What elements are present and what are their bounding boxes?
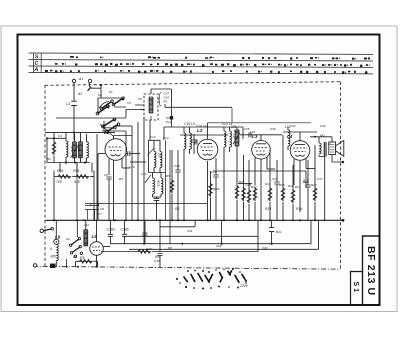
- svg-text:L9: L9: [203, 124, 207, 128]
- table frame: [28, 53, 373, 74]
- resistor R19: [291, 190, 295, 203]
- svg-text:3025: 3025: [157, 180, 161, 187]
- cap C40 to chassis: [159, 220, 161, 252]
- cap C9: [106, 177, 111, 179]
- svg-text:C13: C13: [150, 135, 156, 139]
- resistor R11: [235, 186, 239, 199]
- resistor R1: [52, 142, 56, 155]
- svg-text:C5: C5: [127, 101, 131, 105]
- cap C47: [303, 180, 308, 182]
- dropper coil 900: [56, 245, 58, 261]
- cap C33: [274, 182, 279, 184]
- capacitor C1: [71, 101, 77, 105]
- svg-text:L10: L10: [232, 134, 236, 139]
- grid cluster above L4: [288, 130, 290, 146]
- svg-text:K1: K1: [109, 90, 113, 94]
- coil third: [87, 142, 89, 158]
- svg-text:R5: R5: [166, 174, 170, 178]
- cap C36: [305, 185, 310, 187]
- svg-text:C22: C22: [211, 170, 217, 174]
- resistor R7 at L2: [209, 184, 213, 197]
- svg-text:R6M: R6M: [213, 187, 220, 191]
- output transformer: [319, 142, 326, 157]
- top right long wires: [208, 122, 312, 124]
- svg-text:A2: A2: [77, 92, 82, 96]
- bottom connect wire: [47, 162, 90, 164]
- svg-text:C: C: [35, 61, 39, 67]
- svg-text:L10: L10: [234, 129, 240, 133]
- svg-text:918: 918: [74, 180, 80, 184]
- osc coil pair left of L2: [184, 133, 186, 149]
- svg-text:C40: C40: [154, 259, 160, 263]
- svg-text:C1: C1: [66, 102, 70, 106]
- svg-text:C30: C30: [270, 127, 276, 131]
- svg-text:C14: C14: [163, 136, 169, 140]
- switch arrowheads: [106, 97, 124, 121]
- speaker return wires: [319, 155, 325, 220]
- wire screen L1: [122, 167, 130, 169]
- cap C11 right: [126, 151, 140, 156]
- svg-text:S: S: [35, 54, 39, 60]
- resistor R2: [58, 175, 71, 179]
- svg-text:R15: R15: [279, 183, 285, 187]
- svg-text:K2: K2: [98, 93, 102, 97]
- cap C21 at L2 grid: [195, 139, 197, 144]
- anode wire L5: [103, 246, 110, 248]
- svg-text:C34: C34: [320, 124, 326, 128]
- svg-text:C12: C12: [141, 172, 147, 176]
- cap C16: [175, 170, 180, 172]
- mid vertical wires L1 area: [149, 120, 151, 140]
- electrolytic C38b: [122, 234, 127, 236]
- chassis drop wires: [66, 259, 68, 267]
- svg-text:220V: 220V: [239, 284, 249, 288]
- chassis terminal: [34, 264, 37, 267]
- coil L-ant primary: [73, 142, 77, 158]
- IF coil pair 2: [145, 173, 163, 221]
- svg-text:C37: C37: [317, 177, 323, 181]
- wire L4 anode: [306, 168, 315, 170]
- switch arc marks: [99, 102, 116, 127]
- svg-text:C19 L9: C19 L9: [184, 122, 195, 126]
- vertical value labels on cans: [70, 99, 236, 187]
- heater cap rail: [85, 206, 99, 210]
- svg-text:R12: R12: [251, 185, 257, 189]
- svg-text:C23: C23: [222, 122, 228, 126]
- svg-text:C8: C8: [100, 207, 104, 211]
- svg-text:L8: L8: [229, 122, 233, 126]
- C2 lever: [88, 87, 92, 91]
- cap C20: [191, 140, 196, 142]
- AVC feedback wire: [213, 171, 306, 179]
- trimmer arrows on coils: [71, 133, 241, 158]
- wire antenna down: [73, 83, 75, 140]
- AVC line long: [165, 102, 232, 127]
- resistor R8: [138, 250, 151, 254]
- coil L-ant secondary: [79, 142, 83, 158]
- svg-text:R11: R11: [239, 180, 245, 184]
- wave switch assembly: [98, 99, 123, 132]
- cap C39: [144, 220, 146, 243]
- svg-text:BF 213 U: BF 213 U: [365, 246, 377, 296]
- svg-text:C33: C33: [272, 177, 278, 181]
- oscillator coil can (top): [144, 94, 158, 120]
- svg-text:C31: C31: [187, 229, 193, 233]
- svg-text:R9: R9: [80, 256, 84, 260]
- long vertical routing wires: [125, 131, 127, 220]
- svg-text:R6: R6: [175, 207, 179, 211]
- padder resistors row: [60, 163, 92, 173]
- svg-text:R14: R14: [265, 182, 271, 186]
- mains terminal: [40, 229, 43, 232]
- svg-text:L10: L10: [250, 130, 255, 134]
- return wire 2: [129, 220, 319, 249]
- main earth bus: [46, 219, 344, 221]
- long verticals mid: [166, 140, 171, 243]
- coupling caps above L3: [240, 134, 282, 136]
- svg-text:P11: P11: [166, 120, 171, 124]
- svg-text:C16: C16: [174, 164, 180, 168]
- svg-text:C42: C42: [216, 244, 222, 248]
- svg-text:R18: R18: [57, 169, 63, 173]
- svg-text:R19: R19: [73, 169, 79, 173]
- title block BF 213 U: [363, 236, 380, 305]
- return wire 3 with R8: [101, 220, 258, 251]
- svg-text:C26: C26: [244, 127, 250, 131]
- wire R21 drop: [271, 220, 273, 243]
- svg-text:R4: R4: [119, 177, 123, 181]
- wire drop 2: [221, 220, 223, 243]
- svg-text:C7: C7: [98, 212, 102, 216]
- title block S 1: [351, 272, 363, 306]
- svg-text:C10: C10: [129, 165, 135, 169]
- resistor R9: [80, 260, 93, 264]
- wire can top: [151, 89, 172, 102]
- speaker: [329, 141, 344, 157]
- rectifier tube L5: [90, 220, 104, 266]
- fuse block: [50, 264, 55, 268]
- svg-text:S3: S3: [73, 255, 77, 259]
- table speckle rows: [45, 56, 370, 74]
- svg-text:L12: L12: [84, 223, 89, 227]
- resistor R5: [170, 180, 174, 193]
- svg-text:C41: C41: [262, 246, 268, 250]
- inner drawing frame: [18, 35, 380, 306]
- svg-text:L4: L4: [287, 134, 293, 139]
- svg-text:3000: 3000: [70, 146, 74, 153]
- svg-text:R16: R16: [288, 184, 294, 188]
- dial lamp: [54, 239, 59, 244]
- short screen wire: [238, 183, 252, 185]
- top interconnect wires mid: [164, 127, 230, 140]
- svg-text:R21: R21: [276, 230, 282, 234]
- svg-text:R19: R19: [296, 207, 302, 211]
- wires switch routing: [98, 98, 144, 131]
- svg-text:6: 6: [50, 247, 52, 251]
- trimmer coil small: [66, 141, 68, 157]
- electrolytic C38a: [108, 234, 113, 236]
- cap+res cluster: [242, 188, 246, 201]
- svg-text:A1: A1: [78, 77, 83, 81]
- svg-text:010: 010: [158, 153, 162, 158]
- dropper chain wire: [55, 220, 57, 239]
- cap C22: [213, 175, 218, 177]
- svg-text:C4: C4: [58, 134, 62, 138]
- resistor R20: [313, 188, 317, 201]
- svg-text:L2: L2: [197, 128, 203, 133]
- svg-text:M1: M1: [320, 134, 325, 138]
- svg-text:L5: L5: [92, 234, 98, 239]
- text labels: [33, 54, 38, 73]
- svg-text:A: A: [33, 67, 38, 73]
- coil pair right of L2: [224, 131, 226, 147]
- mains switch lever: [43, 229, 51, 231]
- terminal A1: [72, 79, 75, 82]
- chassis dashed box: [45, 82, 341, 270]
- svg-text:C36: C36: [303, 180, 309, 184]
- switch contact circle: [113, 126, 116, 129]
- svg-text:C38a: C38a: [107, 228, 115, 232]
- svg-text:S2: S2: [66, 237, 70, 241]
- svg-text:C38b: C38b: [121, 228, 129, 232]
- svg-text:R20: R20: [311, 183, 317, 187]
- horizontal routing upper-left: [45, 131, 115, 133]
- voltage selector levers: [71, 239, 80, 253]
- resistor R14: [268, 188, 272, 201]
- cathode res L3: [253, 188, 257, 201]
- selector feed wire: [76, 220, 78, 237]
- svg-text:L6: L6: [55, 235, 61, 240]
- wire from C2 to switch: [89, 83, 91, 88]
- speaker wires top: [310, 137, 332, 143]
- svg-text:C19: C19: [196, 124, 202, 128]
- svg-text:R8: R8: [168, 246, 172, 250]
- stub line under C38: [160, 220, 195, 227]
- svg-text:C32: C32: [290, 124, 296, 128]
- svg-text:R14: R14: [265, 207, 271, 211]
- terminal A2: [88, 79, 91, 82]
- extra table marks: [70, 56, 342, 74]
- svg-text:R17: R17: [295, 185, 301, 189]
- svg-text:100: 100: [150, 99, 154, 104]
- IF coil pair 1: [148, 140, 166, 172]
- svg-text:900: 900: [51, 255, 57, 259]
- svg-text:L1: L1: [104, 130, 110, 135]
- svg-text:R1: R1: [47, 157, 51, 161]
- resistor R16: [281, 188, 285, 201]
- svg-text:C6: C6: [138, 97, 142, 101]
- svg-text:C9: C9: [104, 173, 108, 177]
- grid wire L1 left: [98, 154, 105, 221]
- tiny value labels scatter: [47, 90, 331, 263]
- svg-text:P2: P2: [164, 100, 168, 104]
- svg-text:L3: L3: [252, 134, 258, 139]
- wire top can to switch: [135, 105, 144, 110]
- resistor R3: [76, 175, 89, 179]
- brace with C17 C18 labels: [158, 93, 161, 107]
- extra left drop: [76, 163, 78, 221]
- heater wire: [127, 235, 258, 237]
- svg-text:718: 718: [56, 180, 62, 184]
- heater winding: [84, 230, 88, 246]
- svg-text:S 1: S 1: [352, 282, 359, 293]
- wire L3 anode up: [267, 168, 275, 170]
- chassis bottom dash-dot: [33, 266, 341, 269]
- return wire 1: [110, 220, 311, 243]
- svg-text:C39: C39: [146, 247, 152, 251]
